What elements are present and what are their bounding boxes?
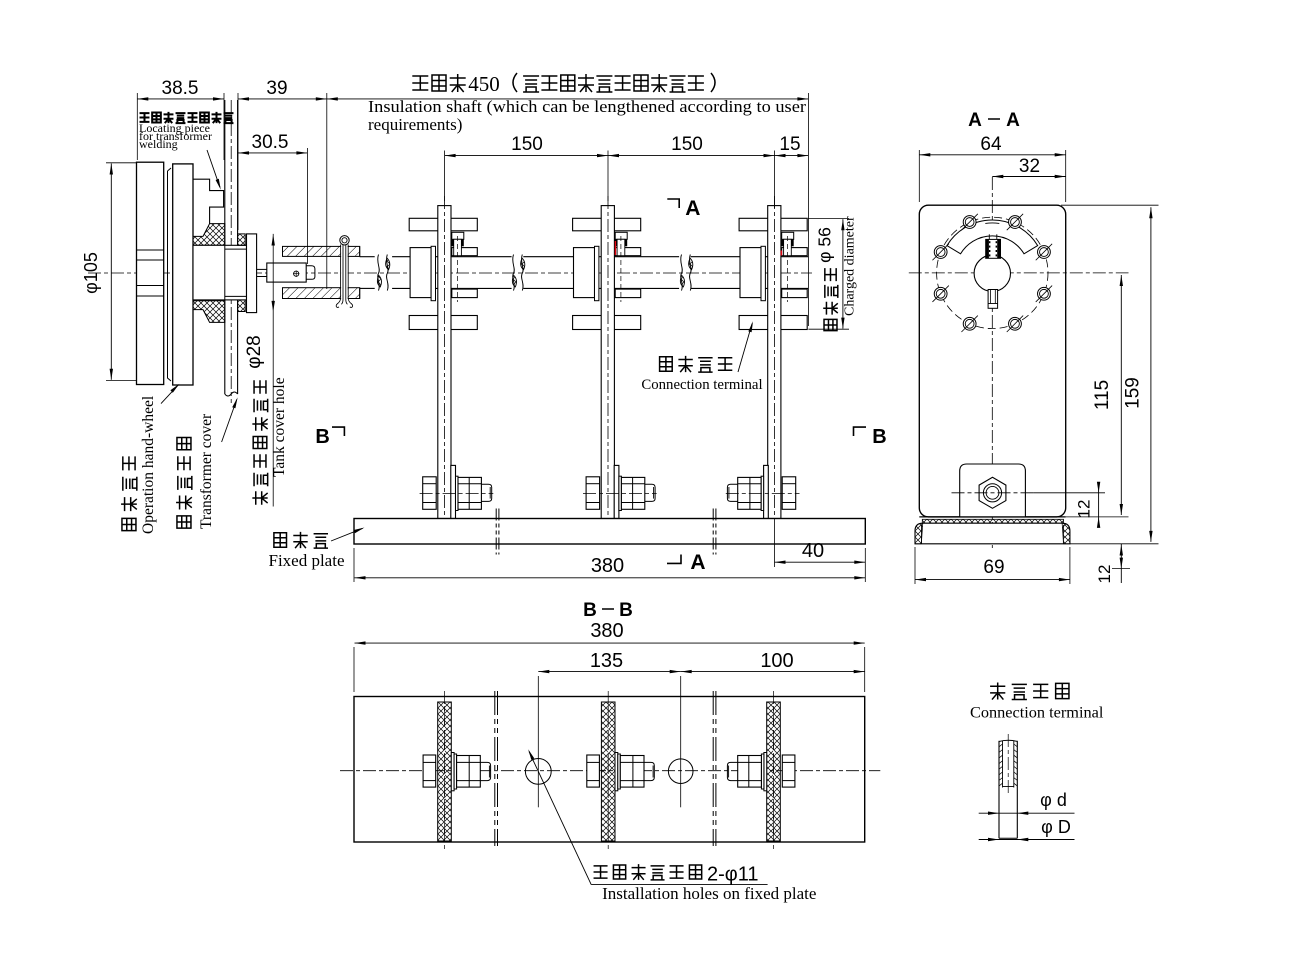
- svg-text:Installation holes on fixed pl: Installation holes on fixed plate: [602, 884, 816, 903]
- fixed plate front view: [354, 519, 865, 545]
- svg-text:A: A: [968, 110, 982, 131]
- terminal bar 3: [615, 289, 641, 298]
- svg-text:Charged diameter: Charged diameter: [843, 216, 858, 316]
- bottom terminal bar: [739, 316, 807, 330]
- label transformer cover: [177, 516, 191, 528]
- label insulation shaft title: [412, 76, 428, 90]
- pole centerline: [444, 196, 446, 527]
- dim 39: [237, 93, 239, 230]
- svg-text:Transformer cover: Transformer cover: [198, 413, 215, 529]
- B-B washers: [615, 753, 618, 791]
- terminal dim phi-d: [979, 812, 1075, 814]
- svg-text:2-φ11: 2-φ11: [707, 864, 759, 886]
- cotter clip ring: [340, 236, 349, 245]
- svg-text:38.5: 38.5: [162, 78, 199, 99]
- fixed plate break marks: [495, 509, 497, 555]
- shaft break 3: [681, 255, 683, 291]
- cotter clip legs white underlay: [341, 243, 348, 302]
- clamp washer: [761, 476, 764, 510]
- label tank cover hole phi28: [252, 491, 267, 505]
- clamp bolt tip: [727, 484, 737, 501]
- B-B disc centerline: [773, 691, 775, 850]
- A-A body rounded plate: [919, 205, 1065, 517]
- B-B insulator disc at x=773.5 (crosshatched): [767, 702, 781, 841]
- step block: [615, 232, 627, 239]
- label fixed plate: [274, 533, 287, 547]
- svg-text:32: 32: [1019, 156, 1040, 177]
- dim phi56 charged diameter: [808, 218, 849, 220]
- step block: [452, 232, 464, 239]
- dim 380 front: [353, 548, 355, 582]
- section A marks top: [667, 199, 679, 208]
- clamp hex nut other side: [423, 477, 437, 510]
- front view: main shaft centerline: [88, 272, 812, 274]
- B-B mounting hole 2: [668, 759, 693, 784]
- dim 38.5: [136, 93, 138, 160]
- snout pin: [294, 271, 299, 276]
- svg-text:40: 40: [802, 540, 824, 562]
- A-A dim 12 upper: [1033, 492, 1105, 494]
- hand-wheel hub lines: [137, 249, 164, 251]
- hub washer: [595, 246, 599, 300]
- clamp washer: [456, 476, 459, 510]
- svg-text:Tank cover hole: Tank cover hole: [271, 377, 288, 477]
- svg-text:12: 12: [1075, 500, 1094, 519]
- shaft neck: [257, 268, 267, 270]
- clamp nut: [458, 477, 481, 509]
- snout tab: [306, 266, 315, 280]
- svg-text:64: 64: [980, 134, 1002, 155]
- operation hand-wheel rim: [137, 162, 164, 384]
- terminal bar 2: [615, 248, 641, 256]
- label connection terminal front: [660, 357, 673, 371]
- A-A base cap: [915, 523, 1070, 544]
- svg-text:φ 56: φ 56: [815, 227, 835, 263]
- clamp nut: [621, 477, 644, 509]
- svg-text:380: 380: [591, 555, 624, 577]
- svg-text:φ105: φ105: [81, 252, 101, 294]
- dim phi28 tank cover hole: [272, 234, 274, 507]
- tank cover hole collar upper (hatched): [238, 234, 246, 245]
- terminal detail label: [990, 682, 1005, 699]
- svg-text:150: 150: [671, 134, 703, 155]
- shaft hub: [574, 248, 595, 298]
- pole centerline: [607, 196, 609, 527]
- A-A bolt circle dashed: [937, 217, 1048, 328]
- gland body: [193, 245, 247, 300]
- A-A top stud with thread: [986, 239, 1001, 258]
- insulating coupling sleeve lower wall (hatched): [283, 288, 360, 299]
- terminal dim phi-D: [979, 839, 1075, 841]
- A-A gasket hatched: [922, 519, 1063, 523]
- svg-text:B: B: [315, 426, 329, 448]
- step block: [782, 232, 794, 239]
- A-A dim 69: [914, 547, 916, 584]
- B-B nut: [620, 756, 644, 788]
- clamp hex nut other side: [782, 477, 796, 510]
- clamp bolt tip: [645, 484, 655, 501]
- pole insulator assembly at x=608: top terminal bar: [573, 218, 641, 231]
- hub washer: [761, 246, 765, 300]
- terminal bar 2: [452, 248, 478, 256]
- transformer cover plate: [224, 100, 226, 394]
- svg-text:B: B: [872, 426, 886, 448]
- svg-text:Fixed plate: Fixed plate: [268, 551, 344, 570]
- B-B installation holes label: [529, 752, 591, 885]
- svg-text:100: 100: [760, 650, 793, 672]
- gland packing lower (hatched): [193, 301, 225, 323]
- svg-text:69: 69: [983, 557, 1004, 578]
- insulator plate: [438, 206, 451, 519]
- A-A cover end line: [919, 516, 1065, 518]
- dim phi105: [106, 162, 137, 164]
- shaft hub: [410, 248, 431, 298]
- insulator plate: [601, 206, 614, 519]
- B-B dim 135: [537, 676, 539, 745]
- terminal detail body: [998, 741, 1000, 839]
- A-A dim 115: [1066, 516, 1129, 518]
- stud: [617, 239, 625, 255]
- svg-text:Connection terminal: Connection terminal: [970, 703, 1104, 722]
- svg-text:requirements): requirements): [368, 115, 462, 134]
- terminal detail thread lines: [1002, 741, 1004, 788]
- label locating piece for transformer welding: [140, 113, 150, 122]
- B-B dim 380: [353, 647, 355, 692]
- svg-text:B: B: [619, 600, 633, 621]
- clamp bolt tip: [481, 484, 491, 501]
- B-B insulator disc at x=608.2 (crosshatched): [601, 702, 615, 841]
- B-B disc centerline: [444, 691, 446, 850]
- pole centerline: [774, 196, 776, 527]
- dim 15: [775, 155, 809, 157]
- B-B hex nut: [423, 755, 436, 787]
- clamp plate: [451, 465, 456, 518]
- clamp hex nut other side: [586, 477, 600, 510]
- seal black fills: [614, 239, 627, 246]
- A-A bolts: [934, 246, 947, 259]
- B-B hex nut: [587, 755, 600, 787]
- transformer cover break: [225, 392, 238, 396]
- clamp plate: [614, 465, 619, 518]
- shaft break 1: [378, 255, 380, 291]
- B-B mounting hole 1: [525, 759, 551, 785]
- label charged diameter phi56: [824, 319, 837, 330]
- terminal detail centerline: [1007, 734, 1009, 795]
- label operation hand-wheel: [122, 518, 136, 530]
- shaft segments with breaks: [360, 256, 375, 258]
- cotter clip legs: [336, 245, 343, 308]
- B-B nut: [738, 756, 762, 788]
- svg-text:Operation hand-wheel: Operation hand-wheel: [140, 396, 157, 534]
- hand-wheel disc face: [168, 168, 172, 381]
- svg-text:135: 135: [590, 650, 623, 672]
- terminal bar 3: [452, 289, 478, 298]
- svg-text:φ28: φ28: [244, 335, 265, 368]
- svg-text:39: 39: [266, 78, 287, 99]
- A-A dim 32: [992, 176, 1065, 178]
- svg-text:15: 15: [779, 134, 800, 155]
- terminal bar 2: [782, 248, 808, 256]
- B-B nut: [457, 756, 481, 788]
- B-B disc centerline: [607, 691, 609, 850]
- B-B fixed plate: [354, 697, 865, 843]
- section B mark right: [854, 427, 867, 436]
- svg-text:450: 450: [468, 72, 500, 96]
- clamp nut: [738, 477, 761, 509]
- svg-text:115: 115: [1092, 380, 1113, 410]
- shaft break 2: [513, 255, 515, 291]
- B-B break marks: [494, 691, 496, 846]
- svg-text:welding: welding: [139, 137, 178, 151]
- stud: [454, 239, 462, 255]
- gland packing upper (hatched): [193, 224, 225, 246]
- hand-wheel mounting plate: [173, 164, 193, 385]
- svg-text:B: B: [583, 600, 597, 621]
- tank cover hole collar lower (hatched): [238, 300, 246, 312]
- seal black fills: [451, 239, 464, 246]
- terminal bar 3: [782, 289, 808, 298]
- svg-text:A: A: [690, 551, 705, 574]
- svg-text:Connection terminal: Connection terminal: [641, 377, 762, 393]
- seal black fills: [781, 239, 794, 246]
- A-A hex nut centerline: [952, 492, 1034, 494]
- red seal tick: [615, 241, 616, 255]
- A-A bottom stem: [988, 290, 998, 309]
- clamp washer: [619, 476, 622, 510]
- clamp bolt centerline: [726, 492, 800, 494]
- svg-text:A: A: [685, 197, 700, 220]
- svg-text:150: 150: [511, 134, 543, 155]
- A-A central circle: [974, 255, 1010, 291]
- svg-text:φ D: φ D: [1041, 817, 1071, 837]
- A-A dim 12 lower: [1120, 544, 1122, 583]
- insulating coupling sleeve upper wall (hatched): [283, 246, 360, 256]
- B-B dim 100: [681, 671, 865, 673]
- A-A dim 64: [918, 150, 920, 202]
- dim 30.5: [306, 148, 308, 264]
- dim 150 pole2-pole3: [608, 155, 775, 157]
- coupling sleeve end faces: [282, 246, 284, 256]
- shaft snout block: [267, 263, 306, 282]
- A-A mechanism vertical centerline: [991, 177, 993, 548]
- pole insulator assembly at x=444.6: top terminal bar: [409, 218, 477, 231]
- A-A dim 159: [1061, 204, 1159, 206]
- svg-text:159: 159: [1123, 377, 1144, 409]
- transformer cover centerline: [230, 100, 232, 403]
- bottom terminal bar: [409, 316, 477, 330]
- svg-text:12: 12: [1095, 565, 1114, 584]
- A-A hex nut: [979, 477, 1006, 508]
- shaft flange at cover: [247, 234, 257, 313]
- red seal tick: [781, 251, 783, 256]
- shaft hub: [740, 248, 761, 298]
- locating piece for transformer welding: [193, 179, 224, 223]
- A-A mechanism horizontal centerline: [909, 272, 1129, 274]
- B-B centerline: [340, 770, 880, 772]
- insulator plate: [768, 206, 781, 519]
- B-B bolt tip: [727, 762, 737, 780]
- A-A hex bolt backing plate: [960, 464, 1026, 517]
- svg-text:A: A: [1006, 110, 1020, 131]
- section A marks bottom: [667, 555, 681, 564]
- dim 40 front: [774, 519, 776, 568]
- B-B bolt tip: [480, 762, 490, 780]
- svg-text:30.5: 30.5: [252, 132, 289, 153]
- B-B bolt tip: [644, 762, 654, 780]
- clamp bolt centerline: [420, 492, 494, 494]
- dim 150 pole1-pole2: [444, 151, 446, 202]
- hub washer: [431, 246, 435, 300]
- B-B washers: [764, 753, 767, 791]
- B-B hex nut: [782, 755, 795, 787]
- svg-text:φ d: φ d: [1040, 790, 1067, 810]
- clamp plate: [764, 465, 769, 518]
- B-B insulator disc at x=444.5 (crosshatched): [438, 702, 452, 841]
- clamp bolt centerline: [583, 492, 657, 494]
- svg-text:380: 380: [590, 620, 623, 642]
- svg-text:Insulation shaft (which can be: Insulation shaft (which can be lengthene…: [368, 97, 806, 116]
- dim 450 insulation shaft: [326, 93, 328, 289]
- B-B washers: [451, 753, 454, 791]
- pole insulator assembly at x=774.5: top terminal bar: [739, 218, 807, 231]
- stud: [784, 239, 792, 255]
- A-A detent arc plate: [947, 220, 1038, 254]
- bottom terminal bar: [573, 316, 641, 330]
